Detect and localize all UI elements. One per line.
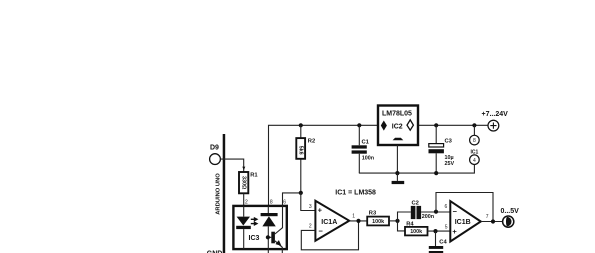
node output/feedback <box>491 219 495 223</box>
svg-text:3: 3 <box>309 204 312 210</box>
wire node to C2 <box>398 212 411 221</box>
value 200n <box>422 214 434 220</box>
svg-text:100k: 100k <box>372 219 384 225</box>
node IC1 power top <box>472 123 476 127</box>
pin 3 label IC1A <box>309 204 312 210</box>
svg-text:0...5V: 0...5V <box>501 208 520 215</box>
svg-text:100k: 100k <box>410 229 422 235</box>
wire R4 to IC1B +in <box>428 230 451 232</box>
node pin6/R2 <box>299 191 303 195</box>
IC3 LED <box>236 206 251 249</box>
wire +V rail right segment <box>418 124 488 126</box>
pin circle IC1 pin 4 <box>470 155 480 165</box>
wire +5V rail left segment <box>269 125 379 206</box>
pin circle IC1 pin 8 <box>470 135 480 145</box>
IC3 LED emission arrows <box>251 217 259 226</box>
svg-text:200n: 200n <box>422 214 434 220</box>
wire IC3 pin6 to node <box>283 193 301 206</box>
svg-text:10µ: 10µ <box>445 155 454 161</box>
svg-text:C4: C4 <box>439 240 447 246</box>
label R3 <box>369 211 377 217</box>
label D9 <box>210 145 219 152</box>
svg-text:IC2: IC2 <box>392 123 403 130</box>
wire arrow into R1 <box>242 167 245 171</box>
wire IC1 pin4 to gnd rail <box>473 165 476 174</box>
svg-text:IC3: IC3 <box>249 235 260 242</box>
svg-text:2: 2 <box>309 223 312 229</box>
IC3 label <box>249 235 260 242</box>
svg-text:4: 4 <box>473 158 476 164</box>
svg-text:R4: R4 <box>406 221 414 227</box>
svg-text:+7...24V: +7...24V <box>482 111 509 118</box>
pin 2 label IC3 <box>245 199 248 205</box>
svg-text:LM78L05: LM78L05 <box>382 111 412 118</box>
svg-text:8: 8 <box>473 138 476 144</box>
wire to IC1 pin8 circle <box>473 125 475 135</box>
svg-text:2: 2 <box>245 199 248 205</box>
label GND pin <box>207 251 223 253</box>
terminal +7...24V <box>488 120 499 131</box>
label IC1 = LM358 <box>335 189 376 196</box>
svg-text:6: 6 <box>283 199 286 205</box>
node R2 top <box>299 123 303 127</box>
label IC1 <box>471 150 479 156</box>
svg-text:IC1B: IC1B <box>455 219 471 226</box>
svg-text:330Ω: 330Ω <box>240 176 246 190</box>
wire IC1A feedback <box>301 221 358 250</box>
svg-text:25V: 25V <box>445 161 455 167</box>
node R4/C4 <box>433 229 437 233</box>
label C4 <box>439 240 447 246</box>
svg-text:5k6: 5k6 <box>297 146 303 155</box>
IC2 input arrow (right, hollow diamond) <box>407 120 413 130</box>
regulator IC2 box <box>378 106 418 146</box>
resistor R2 <box>296 138 305 159</box>
svg-text:C3: C3 <box>445 139 453 145</box>
svg-text:IC1A: IC1A <box>321 219 337 226</box>
IC2 output arrow (left, filled diamond) <box>381 121 387 131</box>
value 100n <box>362 155 374 161</box>
value 10u 25V <box>445 155 455 167</box>
svg-text:R1: R1 <box>250 173 258 179</box>
pin 1 label IC1A <box>352 214 355 220</box>
label 0...5V <box>501 208 520 215</box>
IC2 ground tab <box>393 138 404 141</box>
pin 8 label IC3 <box>270 199 273 205</box>
svg-text:+: + <box>318 205 323 214</box>
wire C2 to IC1B -in <box>421 211 450 213</box>
node gnd C3 <box>434 171 438 175</box>
svg-text:C1: C1 <box>362 139 370 145</box>
svg-text:−: − <box>453 207 458 216</box>
pin 5 label IC1B <box>445 224 448 230</box>
label +7...24V <box>482 111 509 118</box>
label R4 <box>406 221 414 227</box>
svg-text:C2: C2 <box>412 200 419 206</box>
svg-text:R2: R2 <box>308 139 315 145</box>
capacitor C3 electrolytic <box>429 144 444 154</box>
op-amp IC1B <box>450 201 481 241</box>
svg-text:R3: R3 <box>369 211 377 217</box>
pin D9 circle <box>210 154 221 165</box>
IC3 transistor <box>266 206 283 253</box>
label ARDUINO UNO <box>216 173 222 215</box>
wire IC1A output <box>349 220 367 222</box>
wire R2 stubs <box>300 125 302 193</box>
pin 6 label IC3 <box>283 199 286 205</box>
svg-text:IC1 = LM358: IC1 = LM358 <box>335 189 376 196</box>
svg-text:1: 1 <box>352 214 355 220</box>
wire node to R4 <box>398 221 406 231</box>
svg-text:D9: D9 <box>210 145 219 152</box>
resistor R1 <box>239 172 248 193</box>
resistor R3 <box>367 217 389 226</box>
wire C3 stubs <box>435 125 437 173</box>
pin 7 label IC1B <box>486 214 489 220</box>
label R1 <box>250 173 258 179</box>
svg-text:100n: 100n <box>362 155 374 161</box>
wire C1 stubs <box>358 125 360 173</box>
capacitor C2 <box>411 206 421 219</box>
terminal 0...5V <box>503 216 514 227</box>
ground symbol <box>392 173 405 184</box>
wire R3 to node <box>389 220 398 222</box>
label C3 <box>445 139 453 145</box>
wire R1 to IC3 pin2 <box>243 193 245 206</box>
pin 6 label IC1B <box>445 204 448 210</box>
IC2 texts <box>382 111 412 131</box>
node C3 top <box>434 123 438 127</box>
svg-text:8: 8 <box>270 199 273 205</box>
node C1 top <box>357 123 361 127</box>
svg-text:6: 6 <box>445 204 448 210</box>
wire C4 stem <box>435 231 437 246</box>
node gnd IC2 <box>395 171 399 175</box>
label C2 <box>412 200 419 206</box>
op-amp IC1A <box>315 201 349 241</box>
resistor R4 <box>405 227 428 236</box>
capacitor C1 <box>352 145 367 153</box>
svg-text:7: 7 <box>486 214 489 220</box>
svg-text:−: − <box>319 226 324 235</box>
wire D9 to R1 <box>220 159 244 172</box>
node IC1A output <box>356 219 360 223</box>
wire IC1B feedback loop <box>436 193 493 222</box>
ground rail <box>359 172 474 174</box>
wire node to IC1A +in <box>301 193 316 211</box>
wire IC1B output <box>481 221 503 223</box>
svg-text:+: + <box>452 227 457 236</box>
label R2 <box>308 139 315 145</box>
capacitor C4 <box>429 246 443 253</box>
node after R3 <box>395 219 399 223</box>
node C2/feedback <box>434 210 438 214</box>
wire IC2 ground stem <box>396 145 398 173</box>
svg-text:ARDUINO UNO: ARDUINO UNO <box>216 173 222 215</box>
IC3 photodiode <box>261 206 278 253</box>
pin 2 label IC1A <box>309 223 312 229</box>
arduino board edge line <box>223 134 226 253</box>
label C1 <box>362 139 370 145</box>
optocoupler IC3 box <box>233 206 286 249</box>
svg-text:5: 5 <box>445 224 448 230</box>
